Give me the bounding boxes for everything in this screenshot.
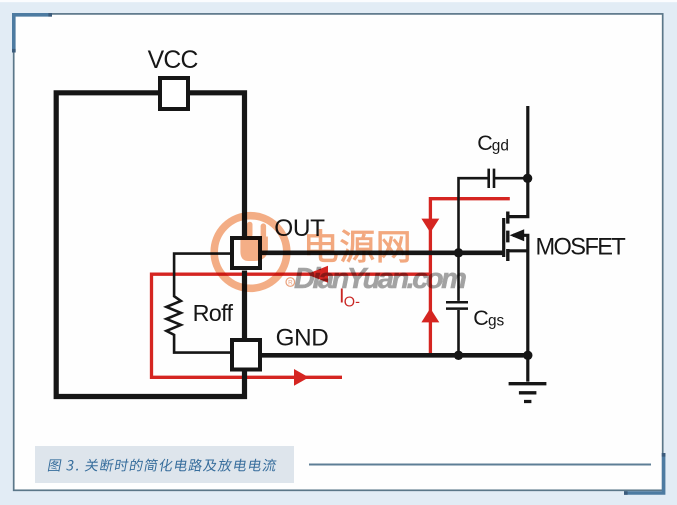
svg-text:MOSFET: MOSFET [536,234,626,260]
svg-text:GND: GND [276,324,329,351]
svg-text:C: C [473,306,488,330]
svg-text:R: R [288,280,293,287]
svg-text:DianYuan.com: DianYuan.com [294,263,466,295]
svg-text:gd: gd [492,137,509,154]
svg-text:VCC: VCC [148,47,198,74]
svg-text:gs: gs [488,312,505,329]
svg-text:C: C [477,131,492,155]
svg-text:O-: O- [344,295,360,311]
svg-text:Roff: Roff [193,300,234,326]
